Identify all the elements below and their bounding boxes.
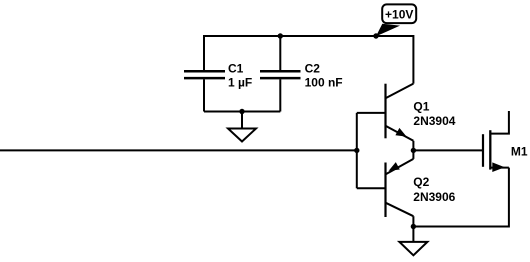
ground (bottom) xyxy=(399,227,427,256)
wire M1 source return xyxy=(413,168,509,227)
ground (capacitors) xyxy=(228,112,256,142)
capacitor C1 xyxy=(184,61,252,111)
node output xyxy=(411,148,416,153)
svg-text:Q2: Q2 xyxy=(413,175,429,189)
wire gate xyxy=(413,149,483,151)
svg-text:1 µF: 1 µF xyxy=(228,76,252,90)
wire emitter link xyxy=(412,141,414,159)
svg-text:100 nF: 100 nF xyxy=(305,76,343,90)
svg-text:+10V: +10V xyxy=(385,7,413,21)
node C2 top tap xyxy=(278,33,283,38)
power +10V xyxy=(373,4,416,38)
transistor Q2 xyxy=(357,159,456,217)
capacitor C2 xyxy=(260,36,343,112)
wire base bus vertical xyxy=(356,113,358,188)
node base junction xyxy=(354,148,359,153)
transistor Q1 xyxy=(357,84,456,141)
wire Q2 collector link xyxy=(412,216,414,226)
wire main input xyxy=(0,149,357,151)
svg-text:M1: M1 xyxy=(511,145,528,159)
svg-text:Q1: Q1 xyxy=(413,99,429,113)
mosfet M1 xyxy=(483,111,528,172)
node bottom junction xyxy=(411,224,416,229)
svg-text:2N3906: 2N3906 xyxy=(413,190,455,204)
svg-text:C1: C1 xyxy=(228,61,244,75)
node ground tap xyxy=(239,109,244,114)
wire top rail xyxy=(204,36,413,84)
svg-text:C2: C2 xyxy=(305,61,321,75)
wire cap bottom rail xyxy=(204,111,280,113)
svg-text:2N3904: 2N3904 xyxy=(413,114,455,128)
